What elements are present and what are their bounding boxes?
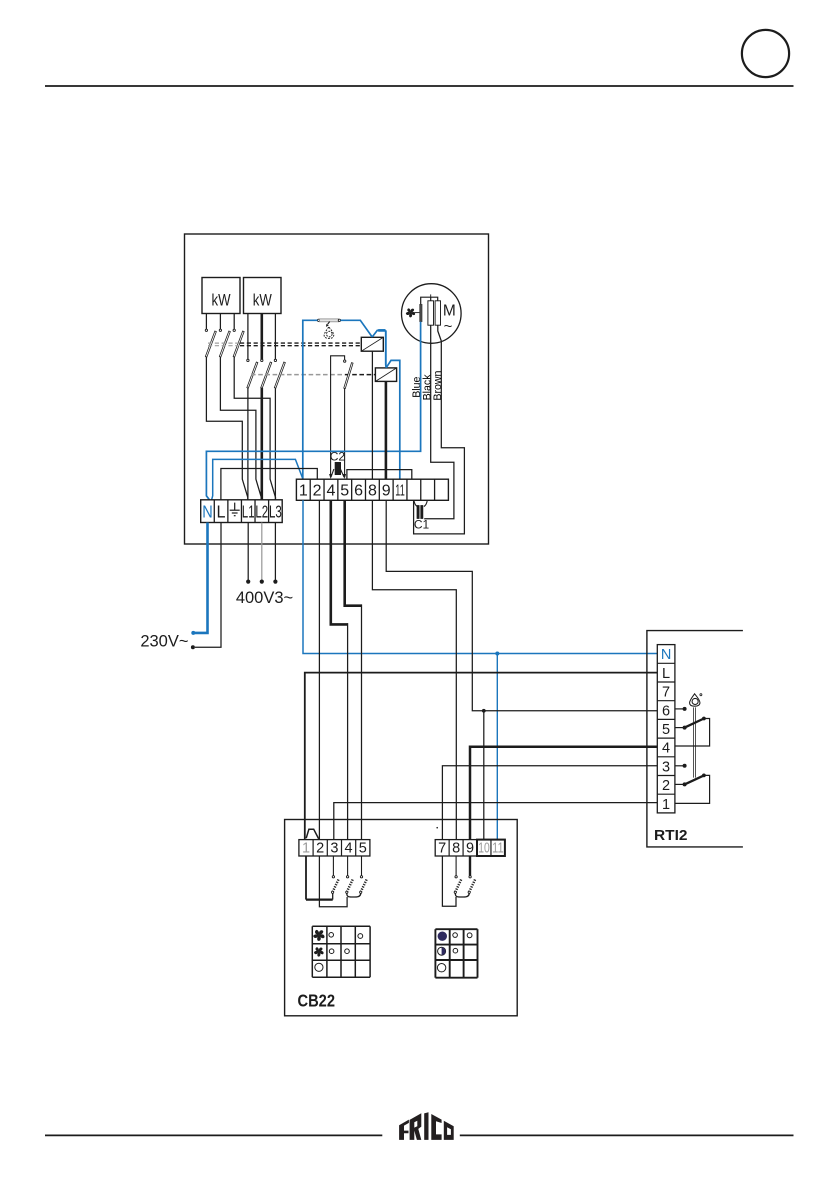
svg-text:L1: L1 [242,501,255,521]
svg-text:CB22: CB22 [298,991,336,1011]
thermal cutout element bar [320,319,339,322]
C2 arm to terminal 5 [340,469,344,477]
terminal strip 1..11 [296,479,448,500]
blue wire K1 top jog [372,330,386,337]
contact terminal circle row1-3 [233,329,235,331]
FRICO logo [399,1112,454,1140]
svg-text:L: L [217,501,226,521]
svg-text:3: 3 [662,759,670,775]
wire L to terminal 2 [221,469,317,500]
C1 arm from cell 10 [424,500,427,506]
wire terminal7(9) to RTI2-6 [386,500,657,711]
full heat dot [438,932,447,941]
svg-text:230V~: 230V~ [140,632,188,650]
CB22 selector blade 3 [361,879,367,892]
contact terminal circle row2-3 [274,359,276,361]
wire phase c to L3 [234,357,275,500]
RTI2 thermostat capillary [693,707,695,777]
RTI2 contact stub 5 [675,727,683,729]
svg-text:RTI2: RTI2 [654,827,688,844]
RTI2 blade wire to terminal 4 [675,719,710,747]
RTI2 blade wire to terminal 1 [675,775,710,803]
wire kW1 lead 2 [219,314,221,330]
wire kW2 lead 3 [274,314,276,360]
heater element kW box 1 [202,278,240,314]
motor top interconnect wire [421,297,438,304]
wire RTI2-4 to CB22-9 (bold) [470,747,657,840]
CB22 selector blade 9 [469,879,475,892]
bold frame terminals 10-11 [477,840,505,856]
contactor coil K1 [361,337,383,351]
C2 arm to terminal 4 [331,469,334,477]
svg-text:L2: L2 [255,501,268,521]
RTI2 terminal strip [657,645,675,813]
svg-text:5: 5 [359,841,367,857]
svg-text:7: 7 [438,841,446,857]
svg-text:~: ~ [444,318,453,335]
wire RTI2-1 to CB22-3 [334,803,658,840]
svg-text:8: 8 [368,483,377,500]
RTI2 switch blade 5-side [685,719,704,728]
contactor K1 contact blade 1 [205,331,216,357]
svg-text:Brown: Brown [432,370,444,400]
L feed dot [191,645,195,649]
arrowhead into terminal 5 [343,474,346,479]
C1 arm from cell 9 [414,500,417,506]
wire kW2 phase b to L2 (bold) [260,388,263,500]
L1 feed wire [247,523,249,581]
blue N feed wire [195,523,208,633]
L2 feed wire (grey) [261,523,263,581]
wire branch to CB22-10 [483,711,485,840]
contactor K1 linkage dashed lines [208,342,240,344]
svg-text:L: L [662,666,670,682]
motor brush bar [420,304,422,321]
CB22 contact circle 5 [360,876,362,878]
contact terminal circle row2-1 [247,359,249,361]
svg-text:C1: C1 [414,518,430,532]
svg-text:6: 6 [354,483,363,500]
flame symbol (overheat) [324,327,334,338]
arrowhead into terminal 4 [329,474,332,479]
CB22 wire from terminal 8 [455,856,457,876]
contactor K2 contact blade 2 [261,362,272,388]
blue wire K2 top jog to terminal 11 [386,360,400,479]
CB22 U link blades 4-5 [347,893,361,897]
CB22 wire terminal1 to blade3 pivot [305,856,307,900]
CB22 terminal strip 7-11 [435,840,505,856]
CB22 wire from terminal 4 [347,856,349,876]
fan icon row1 [313,930,325,942]
svg-text:kW: kW [253,291,272,310]
L3 feed wire [274,523,276,581]
motor circle M [402,284,462,344]
wire kW1 lead 1 [205,314,207,330]
footer rule right [460,1134,794,1136]
unit enclosure box [185,234,489,544]
CB22 fan-speed table [312,925,370,927]
contactor K2 contact blade 3 [274,362,285,388]
CB22 wire terminal2 to U link [319,856,347,907]
blue wire down to K2 [385,330,387,367]
svg-text:8: 8 [452,841,460,857]
fan speed contact fixed circle [344,360,346,362]
svg-text:1: 1 [302,841,310,857]
contact terminal circle row1-1 [205,329,207,331]
svg-text:1: 1 [299,483,308,500]
CB22 terminal strip 1-5 [299,840,370,856]
earth symbol [234,503,236,511]
RTI2 thermostat flame icon [690,694,700,706]
wire terminal4 riser (inverted U) [331,356,345,474]
blue wire terminal1 to RTI2 N [303,500,657,653]
svg-text:10: 10 [478,841,490,857]
thermal cutout left terminal circle [317,319,319,321]
RTI2 enclosure (open right) [647,631,743,847]
svg-text:2: 2 [316,841,324,857]
svg-text:3: 3 [330,841,338,857]
svg-text:11: 11 [395,483,405,500]
svg-text:N: N [202,501,213,521]
CB22 jumper bridge 1-2 [306,829,319,839]
svg-text:9: 9 [382,483,391,500]
wire terminal6(8) to CB22-8 [372,500,456,839]
off circle [437,964,445,972]
header circle badge [742,30,789,77]
svg-text:7: 7 [662,685,670,701]
RTI2 switch blade 2-side [685,775,704,784]
RTI2 contact stub 3 [675,765,683,767]
wire kW2 lead 1 [247,314,249,360]
heater element kW box 2 [244,278,282,314]
wire terminal 5 jumper to C1 cell [347,470,412,480]
blue wire cutout to K1 [341,320,373,337]
wire K1 coil to terminal 6(8) [371,351,373,479]
contact terminal circle row1-2 [219,329,221,331]
CB22 selector blade 2 [347,879,353,892]
wire kW2 lead 2 [260,314,263,360]
svg-text:2: 2 [662,778,670,794]
CB22 heat-stage table [435,928,477,930]
fan icon row2 [314,947,324,957]
svg-text:9: 9 [466,841,474,857]
svg-text:400V3~: 400V3~ [236,589,293,607]
RTI2 contact stub 6 [675,708,683,710]
svg-text:11: 11 [492,841,504,857]
motor fan icon [405,308,415,318]
CB22 enclosure [285,820,518,1016]
svg-text:6: 6 [662,703,670,719]
svg-text:5: 5 [340,483,349,500]
wire RTI2-L to CB22-1 [305,673,658,840]
wire kW2 phase c to L3 [274,388,276,500]
svg-text:5: 5 [662,722,670,738]
svg-text:4: 4 [345,841,353,857]
contactor K1 contact blade 3 [233,331,244,357]
capacitor C1 plates [417,505,419,518]
contactor K2 contact blade 1 [247,362,258,388]
CB22 wire from terminal 3 [332,856,334,876]
header rule [45,85,794,87]
CB22 wire from terminal 9 (bold) [469,856,471,876]
svg-text:4: 4 [326,483,335,500]
wire terminal2 to CB22-2 [318,500,320,839]
blue wire thermostat feed [303,320,318,479]
svg-text:N: N [661,647,671,663]
svg-text:L3: L3 [269,501,282,521]
supply terminal strip [201,500,283,523]
black motor lead to C1 [424,325,454,519]
junction dot RTI2-6 branch [482,709,486,713]
blue wire N loop to motor [206,322,420,500]
contactor coil K2 [375,368,396,382]
CB22 selector blade 1 [333,879,339,892]
footer rule left [45,1134,382,1136]
svg-text:4: 4 [662,741,670,757]
motor winding B [435,301,440,325]
L feed wire [195,523,221,648]
capacitor C2 plates [335,462,341,474]
svg-text:M: M [443,303,456,320]
table circles [453,933,458,938]
table circles [329,933,334,938]
RTI2 contact stub 2 [675,783,683,785]
motor winding A [428,301,434,325]
wire kW2 phase a to L1 [247,388,249,500]
fan speed contact blade [344,363,353,389]
contactor K1 contact blade 2 [219,331,230,357]
svg-text:1: 1 [662,797,670,813]
CB22 selector blade 8 [455,879,461,892]
wire blade to terminal 5 [344,388,346,474]
blue junction dot [495,652,499,656]
thermal cutout right terminal circle [338,319,340,321]
thermal cutout actuator arrow [328,322,330,325]
CB22 wire from terminal 5 [361,856,363,876]
stray spec dot [436,827,438,829]
wire phase b to L2 [220,357,261,500]
blue wire N to terminal 1 [212,459,303,499]
wire terminal5 to CB22-5 (bold step) [345,500,362,605]
blue N feed dot [191,631,195,635]
contactor K2 linkage dashed line [251,374,345,376]
CB22 U link blades 8-9 [455,893,469,897]
brown motor lead loop to terminal 9 cell [414,325,465,534]
wire phase a to L1 [206,357,247,500]
half heat dot [438,947,446,955]
wire K2 coil to terminal 7(9) bold [385,381,388,479]
CB22 wire terminal7 to link [442,856,456,906]
CB22 contact circle 3 [332,876,334,878]
contact terminal circle row2-2 [261,359,263,361]
wire RTI2-3 to CB22-7 [442,766,657,840]
svg-text:kW: kW [212,291,231,310]
svg-text:2: 2 [313,483,322,500]
wire terminal4 to CB22-4 (bold step) [331,500,348,624]
CB22 contact circle 4 [346,876,348,878]
blue wire to CB22 terminal 11 [496,654,498,840]
wire kW1 lead 3 [233,314,235,330]
